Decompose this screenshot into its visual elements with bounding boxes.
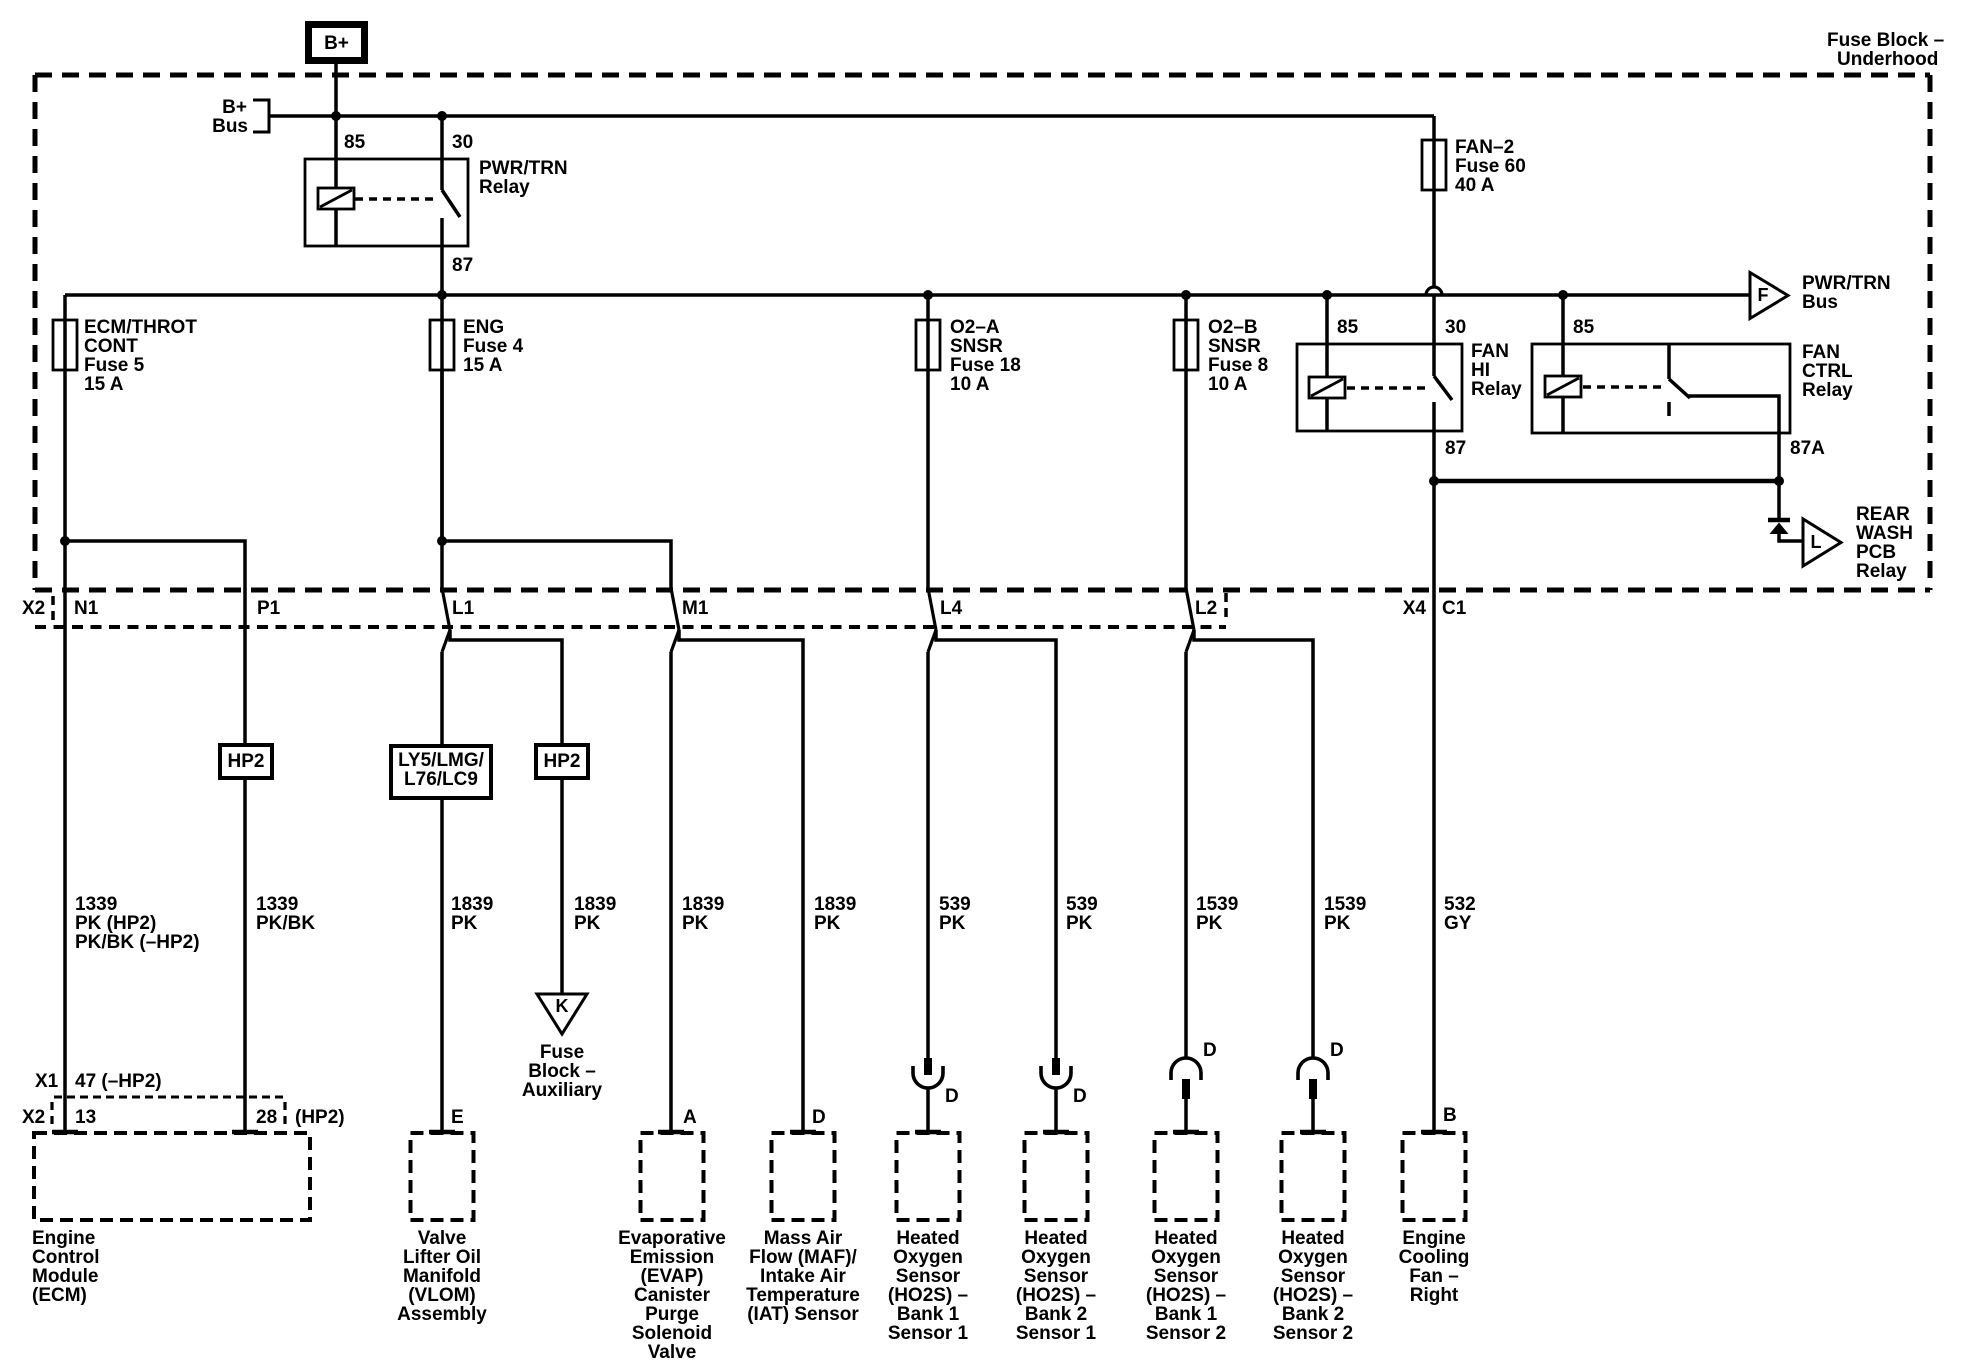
svg-text:Relay: Relay — [1802, 380, 1853, 401]
component box HO2S bank2 sensor1 — [1016, 1133, 1097, 1344]
connector X2 lower dashed line — [35, 625, 1226, 629]
svg-text:Module: Module — [32, 1266, 99, 1287]
svg-text:O2–A: O2–A — [950, 317, 1000, 338]
svg-text:D: D — [1330, 1040, 1344, 1061]
wire FAN HI 85 coil feed — [1325, 295, 1329, 378]
svg-text:30: 30 — [452, 132, 473, 153]
relay K2 control dashed link — [1583, 385, 1662, 388]
svg-text:Sensor 2: Sensor 2 — [1146, 1323, 1226, 1344]
svg-text:Bank 1: Bank 1 — [897, 1304, 960, 1325]
svg-text:532: 532 — [1444, 894, 1476, 915]
svg-text:Bank 2: Bank 2 — [1282, 1304, 1344, 1325]
svg-text:Block –: Block – — [528, 1061, 596, 1082]
svg-text:47 (–HP2): 47 (–HP2) — [75, 1071, 162, 1092]
svg-text:Assembly: Assembly — [397, 1304, 487, 1325]
svg-text:PK: PK — [451, 913, 478, 934]
svg-text:1839: 1839 — [574, 894, 616, 915]
svg-text:1839: 1839 — [814, 894, 856, 915]
wire VLOM feed below L1 — [440, 652, 444, 1132]
relay U1 coil — [318, 188, 354, 246]
svg-text:CONT: CONT — [84, 336, 138, 357]
svg-text:Fuse 4: Fuse 4 — [463, 336, 524, 357]
connector X1 ECM labels — [35, 1071, 285, 1097]
wire jog L2 to HO2S bank2 sensor2 — [1194, 630, 1313, 1058]
svg-text:L76/LC9: L76/LC9 — [404, 769, 478, 790]
relay K1 control dashed link — [1347, 386, 1427, 389]
label Fuse Block - Underhood — [1827, 30, 1944, 70]
svg-text:Fuse: Fuse — [540, 1042, 584, 1063]
svg-text:15 A: 15 A — [463, 355, 503, 376]
connector pin slant L2 — [1186, 588, 1194, 630]
diode D1 — [1768, 520, 1790, 534]
node junction bus / O2-B fuse — [1181, 290, 1191, 300]
svg-text:SNSR: SNSR — [1208, 336, 1261, 357]
terminal bar EVAP pin A — [658, 1130, 684, 1135]
terminal bar HO2S B2S2 — [1300, 1130, 1326, 1135]
fuse O2-B SNSR Fuse 8 10A — [1174, 295, 1268, 589]
inline connector D HO2S B1S2 — [1171, 1040, 1217, 1131]
svg-text:Purge: Purge — [645, 1304, 699, 1325]
svg-text:L1: L1 — [452, 598, 475, 619]
svg-text:Sensor 2: Sensor 2 — [1273, 1323, 1353, 1344]
svg-text:Sensor: Sensor — [1281, 1266, 1346, 1287]
svg-text:Manifold: Manifold — [403, 1266, 481, 1287]
svg-text:(HO2S) –: (HO2S) – — [888, 1285, 968, 1306]
svg-text:FAN: FAN — [1802, 342, 1840, 363]
node junction ECM branch — [60, 536, 70, 546]
svg-text:10 A: 10 A — [950, 374, 990, 395]
svg-text:ECM/THROT: ECM/THROT — [84, 317, 197, 338]
svg-text:D: D — [1203, 1040, 1217, 1061]
svg-text:15 A: 15 A — [84, 374, 124, 395]
svg-text:WASH: WASH — [1856, 523, 1913, 544]
relay K1 coil — [1309, 377, 1345, 431]
wire jog M1 to MAF wire — [679, 630, 803, 1132]
svg-text:L2: L2 — [1195, 598, 1217, 619]
tag K Fuse Block - Auxiliary — [522, 994, 603, 1101]
svg-text:Cooling: Cooling — [1399, 1247, 1470, 1268]
B+ power symbol — [309, 25, 365, 61]
svg-text:30: 30 — [1445, 317, 1466, 338]
svg-text:D: D — [1073, 1086, 1087, 1107]
wire relay 30 input — [440, 116, 444, 190]
option box HP2 on auxiliary wire — [536, 745, 588, 778]
component box EVAP canister purge solenoid valve — [618, 1133, 726, 1363]
svg-text:GY: GY — [1444, 913, 1472, 934]
wire relay 85 coil feed — [334, 116, 338, 188]
svg-text:PK: PK — [574, 913, 601, 934]
inline connector D HO2S B2S2 — [1298, 1040, 1344, 1131]
svg-text:Oxygen: Oxygen — [1278, 1247, 1348, 1268]
svg-text:85: 85 — [1337, 317, 1359, 338]
svg-text:HP2: HP2 — [228, 751, 265, 772]
component box Engine Control Module ECM — [32, 1133, 310, 1306]
terminal bar MAF pin D — [790, 1130, 816, 1135]
svg-text:1339: 1339 — [256, 894, 298, 915]
svg-text:B+: B+ — [222, 97, 247, 118]
svg-text:Fuse 60: Fuse 60 — [1455, 156, 1526, 177]
svg-text:Underhood: Underhood — [1837, 49, 1938, 70]
svg-text:1539: 1539 — [1196, 894, 1238, 915]
svg-text:(HO2S) –: (HO2S) – — [1146, 1285, 1226, 1306]
svg-text:10 A: 10 A — [1208, 374, 1248, 395]
svg-text:Relay: Relay — [479, 177, 530, 198]
svg-text:F: F — [1758, 285, 1769, 305]
wire PWR/TRN bus horizontal — [65, 293, 1750, 297]
svg-text:Bank 2: Bank 2 — [1025, 1304, 1087, 1325]
wire EVAP feed below M1 — [669, 652, 673, 1132]
svg-text:Engine: Engine — [1402, 1228, 1465, 1249]
terminal bar HO2S B2S1 — [1043, 1130, 1069, 1135]
svg-text:Fuse Block –: Fuse Block – — [1827, 30, 1944, 51]
svg-text:PCB: PCB — [1856, 542, 1896, 563]
svg-text:X2: X2 — [22, 1107, 45, 1128]
svg-text:Sensor 1: Sensor 1 — [888, 1323, 969, 1344]
svg-text:Evaporative: Evaporative — [618, 1228, 726, 1249]
svg-text:X1: X1 — [35, 1071, 59, 1092]
wire L1 feed — [440, 370, 444, 589]
svg-text:SNSR: SNSR — [950, 336, 1003, 357]
svg-text:Bus: Bus — [1802, 292, 1838, 313]
svg-text:Fuse 5: Fuse 5 — [84, 355, 145, 376]
svg-text:C1: C1 — [1442, 598, 1467, 619]
svg-text:PK: PK — [1196, 913, 1223, 934]
svg-text:M1: M1 — [682, 598, 709, 619]
svg-text:28: 28 — [256, 1107, 277, 1128]
component box Valve Lifter Oil Manifold VLOM — [397, 1133, 487, 1325]
wire FAN-2 fuse to FAN HI relay 30 — [1432, 189, 1436, 287]
terminal bar fan pin B — [1421, 1130, 1447, 1135]
svg-text:ENG: ENG — [463, 317, 504, 338]
B+ Bus label bracket — [212, 97, 269, 137]
svg-text:Fuse 18: Fuse 18 — [950, 355, 1021, 376]
svg-text:(IAT) Sensor: (IAT) Sensor — [747, 1304, 859, 1325]
svg-text:Sensor: Sensor — [896, 1266, 961, 1287]
svg-text:X2: X2 — [22, 598, 45, 619]
wire jog L4 to HO2S bank2 sensor1 — [936, 630, 1056, 1058]
svg-text:87: 87 — [1445, 438, 1466, 459]
connector pin slant L4 — [928, 588, 936, 630]
svg-text:Bus: Bus — [212, 116, 248, 137]
svg-text:Oxygen: Oxygen — [1151, 1247, 1221, 1268]
svg-text:PK/BK (–HP2): PK/BK (–HP2) — [75, 932, 200, 953]
wire N1 feed down to ECM pin 13 — [63, 541, 67, 1132]
relay K2 FAN CTRL — [1532, 317, 1853, 459]
svg-text:(HP2): (HP2) — [295, 1107, 345, 1128]
relay K2 switch arm — [1669, 379, 1690, 398]
node junction B+ bus / relay 85 — [331, 111, 341, 121]
svg-text:Temperature: Temperature — [746, 1285, 860, 1306]
svg-text:B+: B+ — [324, 33, 349, 54]
svg-text:K: K — [556, 996, 569, 1016]
svg-text:REAR: REAR — [1856, 504, 1910, 525]
svg-text:Canister: Canister — [634, 1285, 711, 1306]
svg-text:D: D — [945, 1086, 959, 1107]
svg-text:LY5/LMG/: LY5/LMG/ — [398, 750, 485, 771]
svg-text:87: 87 — [452, 255, 473, 276]
svg-text:Sensor: Sensor — [1154, 1266, 1219, 1287]
svg-text:Solenoid: Solenoid — [632, 1323, 712, 1344]
connector pin slant L1 — [442, 588, 450, 630]
option box LY5/LMG/L76/LC9 on VLOM wire — [391, 746, 491, 798]
fuse O2-A SNSR Fuse 18 10A — [916, 295, 1021, 589]
wire HO2S bank1 sensor2 feed — [1184, 652, 1188, 1058]
svg-text:Lifter Oil: Lifter Oil — [403, 1247, 481, 1268]
connector X2 left end cap — [51, 596, 55, 624]
svg-text:Heated: Heated — [1024, 1228, 1087, 1249]
svg-text:L4: L4 — [940, 598, 963, 619]
node junction bus / FAN HI 85 — [1322, 290, 1332, 300]
svg-text:O2–B: O2–B — [1208, 317, 1258, 338]
svg-text:D: D — [812, 1107, 826, 1128]
wire FAN HI 87 output — [1432, 402, 1436, 481]
inline connector D HO2S B2S1 — [1041, 1058, 1087, 1131]
svg-text:(HO2S) –: (HO2S) – — [1273, 1285, 1353, 1306]
svg-text:Flow (MAF)/: Flow (MAF)/ — [749, 1247, 857, 1268]
svg-text:Fuse 8: Fuse 8 — [1208, 355, 1268, 376]
node junction bus / O2-A fuse — [923, 290, 933, 300]
component box engine cooling fan right — [1399, 1133, 1470, 1306]
svg-text:PK: PK — [1324, 913, 1351, 934]
fuse ENG Fuse 4 15A — [430, 317, 524, 541]
svg-text:E: E — [451, 1107, 464, 1128]
relay K2 coil — [1545, 376, 1581, 433]
terminal bar VLOM pin E — [429, 1130, 455, 1135]
svg-text:1339: 1339 — [75, 894, 117, 915]
svg-text:(VLOM): (VLOM) — [408, 1285, 476, 1306]
svg-text:539: 539 — [939, 894, 971, 915]
svg-text:Valve: Valve — [648, 1342, 697, 1363]
connector pin slant M1 — [671, 588, 679, 630]
svg-text:Valve: Valve — [418, 1228, 467, 1249]
node junction 87 / PWR-TRN bus — [437, 290, 447, 300]
svg-text:CTRL: CTRL — [1802, 361, 1853, 382]
component box MAF IAT sensor — [746, 1133, 860, 1325]
relay K1 switch arm — [1434, 376, 1452, 400]
terminal bar HO2S B1S1 — [915, 1130, 941, 1135]
svg-text:40 A: 40 A — [1455, 175, 1495, 196]
svg-text:Control: Control — [32, 1247, 100, 1268]
svg-text:PK/BK: PK/BK — [256, 913, 315, 934]
inline connector D HO2S B1S1 — [913, 1058, 959, 1131]
wire relay 87 output — [440, 218, 444, 320]
svg-text:Fan –: Fan – — [1409, 1266, 1459, 1287]
relay K1 FAN HI — [1297, 317, 1522, 459]
wire FAN CTRL 87A internal — [1687, 396, 1779, 481]
connector X2 ECM labels — [22, 1102, 345, 1129]
svg-text:87A: 87A — [1790, 438, 1825, 459]
svg-text:(HO2S) –: (HO2S) – — [1016, 1285, 1096, 1306]
svg-text:P1: P1 — [257, 598, 281, 619]
svg-text:13: 13 — [75, 1107, 96, 1128]
relay U1 switch arm — [442, 190, 460, 217]
svg-text:HI: HI — [1471, 360, 1490, 381]
wire C1 engine cooling fan feed — [1432, 481, 1436, 1132]
svg-text:(ECM): (ECM) — [32, 1285, 87, 1306]
wire diode to L tag — [1779, 532, 1803, 541]
svg-text:Bank 1: Bank 1 — [1155, 1304, 1218, 1325]
fuse ECM/THROT CONT Fuse 5 15A — [53, 295, 197, 541]
svg-text:85: 85 — [344, 132, 366, 153]
svg-text:A: A — [683, 1107, 697, 1128]
wire B+ to B+ bus — [334, 64, 338, 116]
svg-text:Auxiliary: Auxiliary — [522, 1080, 603, 1101]
svg-text:FAN–2: FAN–2 — [1455, 137, 1514, 158]
svg-text:Engine: Engine — [32, 1228, 95, 1249]
wire hop over PWR/TRN bus — [1426, 287, 1442, 295]
svg-text:Heated: Heated — [1281, 1228, 1344, 1249]
svg-text:N1: N1 — [74, 598, 99, 619]
svg-text:Intake Air: Intake Air — [760, 1266, 846, 1287]
relay K2 common 30 internal wire — [1667, 344, 1671, 379]
svg-text:PK: PK — [939, 913, 966, 934]
node junction ENG branch — [437, 536, 447, 546]
relay U1 control dashed link — [355, 197, 436, 200]
svg-text:PWR/TRN: PWR/TRN — [1802, 273, 1891, 294]
component box HO2S bank1 sensor1 — [888, 1133, 969, 1344]
wire 87 to 87A interconnect — [1434, 479, 1779, 484]
component box HO2S bank1 sensor2 — [1146, 1133, 1226, 1344]
svg-text:X4: X4 — [1403, 598, 1427, 619]
svg-text:L: L — [1811, 532, 1822, 552]
terminal bar HO2S B1S2 — [1173, 1130, 1199, 1135]
svg-text:Relay: Relay — [1856, 561, 1907, 582]
svg-text:1839: 1839 — [451, 894, 493, 915]
svg-text:HP2: HP2 — [544, 751, 581, 772]
relay K2 open contact stub — [1667, 402, 1671, 416]
svg-text:PWR/TRN: PWR/TRN — [479, 158, 568, 179]
svg-text:Heated: Heated — [1154, 1228, 1217, 1249]
node junction 87 interconnect — [1429, 476, 1439, 486]
wire B+ bus corner down to FAN-2 fuse — [1432, 116, 1436, 140]
svg-text:Sensor: Sensor — [1024, 1266, 1089, 1287]
svg-text:Relay: Relay — [1471, 379, 1522, 400]
svg-text:Emission: Emission — [630, 1247, 714, 1268]
svg-text:85: 85 — [1573, 317, 1595, 338]
terminal bar ECM pin 13 — [52, 1130, 78, 1135]
svg-text:Mass Air: Mass Air — [764, 1228, 843, 1249]
node junction B+ bus / relay 30 — [437, 111, 447, 121]
wire 87A to diode — [1777, 481, 1781, 520]
svg-text:Heated: Heated — [896, 1228, 959, 1249]
svg-text:Oxygen: Oxygen — [893, 1247, 963, 1268]
svg-text:Sensor 1: Sensor 1 — [1016, 1323, 1097, 1344]
wire HO2S bank1 sensor1 feed — [926, 652, 930, 1058]
svg-text:Oxygen: Oxygen — [1021, 1247, 1091, 1268]
wire ECM branch to P1 — [65, 541, 245, 1132]
connector X2 right end cap — [1224, 593, 1228, 623]
connector X2 labels — [22, 598, 1217, 619]
fuse FAN-2 Fuse 60 40A — [1422, 137, 1526, 196]
wire FAN CTRL 85 coil feed — [1561, 295, 1565, 377]
terminal bar ECM pin 28 — [232, 1130, 258, 1135]
svg-text:(EVAP): (EVAP) — [641, 1266, 704, 1287]
tag F PWR/TRN Bus — [1750, 273, 1891, 319]
svg-text:PK: PK — [682, 913, 709, 934]
relay U1 PWR/TRN — [305, 132, 568, 276]
wire ENG branch to M1 — [442, 541, 671, 589]
option box HP2 on P1 wire — [220, 745, 272, 778]
svg-text:1839: 1839 — [682, 894, 724, 915]
svg-text:FAN: FAN — [1471, 341, 1509, 362]
wire jog L1 to fuse block auxiliary wire — [450, 630, 562, 994]
svg-text:PK: PK — [1066, 913, 1093, 934]
svg-text:1539: 1539 — [1324, 894, 1366, 915]
svg-text:539: 539 — [1066, 894, 1098, 915]
wire B+ bus horizontal — [269, 114, 1434, 118]
node junction 87A interconnect — [1774, 476, 1784, 486]
component box HO2S bank2 sensor2 — [1273, 1133, 1353, 1344]
svg-text:Right: Right — [1410, 1285, 1459, 1306]
svg-text:PK: PK — [814, 913, 841, 934]
node junction bus / FAN CTRL 85 — [1558, 290, 1568, 300]
tag L REAR WASH PCB Relay — [1803, 504, 1913, 582]
svg-text:B: B — [1443, 1105, 1457, 1126]
fuse block underhood dashed boundary — [35, 75, 1930, 590]
svg-text:PK (HP2): PK (HP2) — [75, 913, 156, 934]
connector X4 C1 labels — [1403, 598, 1467, 619]
